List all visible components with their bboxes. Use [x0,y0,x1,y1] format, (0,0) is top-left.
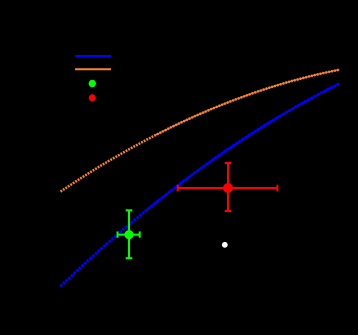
red data point [223,183,233,193]
red errorbar horizontal [178,185,278,192]
white data point [222,242,228,248]
green errorbar vertical [126,210,133,258]
orange curve solid core (right portion) [155,70,339,136]
green errorbar horizontal [118,231,140,237]
green data point [124,230,133,239]
blue dotted model curve [60,84,339,287]
orange dotted model curve [61,70,340,192]
legend green marker [89,80,96,87]
legend blue line [75,55,111,57]
red errorbar vertical [225,163,232,211]
legend orange line [75,68,111,70]
blue curve solid core (right portion) [145,84,340,212]
legend red marker [89,94,96,101]
